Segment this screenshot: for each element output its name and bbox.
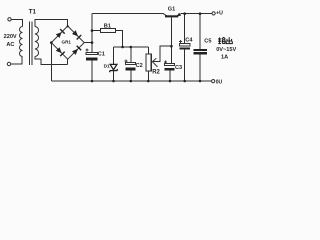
svg-text:B1: B1	[104, 23, 111, 29]
svg-text:220V: 220V	[4, 34, 17, 40]
svg-text:0V~15V: 0V~15V	[216, 47, 236, 53]
svg-text:C4: C4	[185, 38, 193, 44]
svg-text:GR1: GR1	[62, 39, 72, 44]
svg-text:+U: +U	[216, 10, 223, 16]
svg-text:R2: R2	[152, 70, 160, 76]
svg-text:G1: G1	[168, 7, 175, 13]
svg-text:T1: T1	[29, 9, 37, 16]
svg-text:C3: C3	[175, 65, 182, 71]
svg-text:C1: C1	[98, 52, 105, 58]
svg-text:D1: D1	[104, 63, 110, 69]
svg-text:C2: C2	[136, 63, 143, 69]
svg-text:1A: 1A	[221, 54, 228, 60]
svg-text:AC: AC	[6, 42, 14, 48]
svg-text:0U: 0U	[216, 79, 223, 85]
svg-text:C5: C5	[204, 38, 211, 44]
